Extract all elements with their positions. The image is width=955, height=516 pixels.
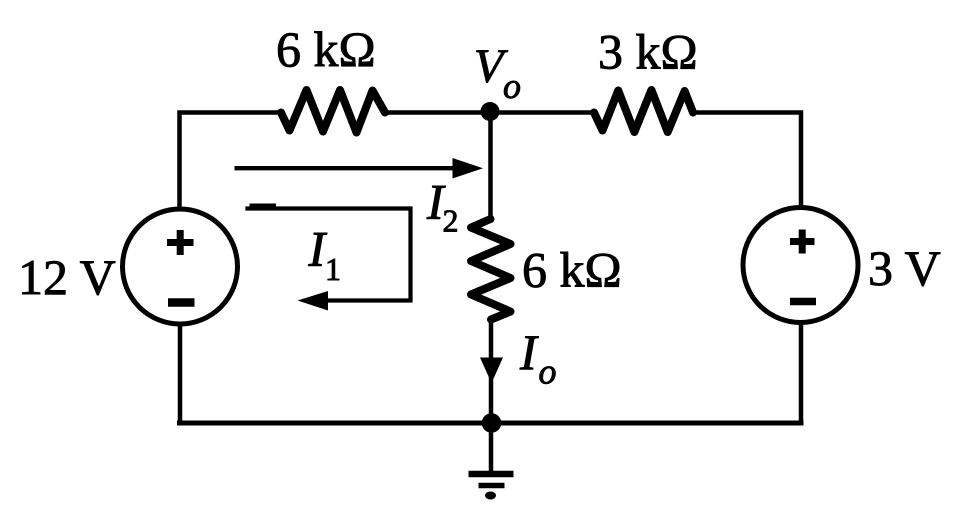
wire middle-lower: R3 bottom to bottom node (Io branch): [489, 319, 494, 423]
svg-text:3 V: 3 V: [868, 240, 941, 296]
svg-text:o: o: [503, 66, 521, 106]
ground symbol: [469, 423, 514, 486]
wire left-lower: 12V source bottom to bottom rail: [178, 324, 183, 423]
voltage source V1 minus sign: [168, 298, 195, 307]
voltage source V2 plus sign: [790, 230, 815, 254]
node Vo junction dot: [481, 102, 500, 121]
resistor R3 6 kOhm vertical zigzag: [471, 219, 511, 320]
wire bottom rail: [180, 421, 802, 426]
svg-text:12 V: 12 V: [18, 249, 116, 305]
ground bottom dot: [485, 492, 496, 500]
svg-text:I: I: [519, 324, 539, 380]
current arrow I1 (loop with left arrow): [248, 207, 411, 311]
current arrow I2 (long right arrow): [235, 158, 484, 179]
resistor R1 6 kOhm horizontal zigzag: [281, 90, 385, 133]
voltage source V2 3V circle: [743, 208, 858, 323]
voltage source V1 12V circle: [123, 209, 238, 324]
wire middle: node Vo down to resistor R3: [488, 111, 493, 219]
voltage source V2 minus sign: [790, 298, 816, 306]
voltage source V1 plus sign: [167, 230, 194, 255]
svg-text:3 kΩ: 3 kΩ: [598, 24, 698, 80]
svg-text:2: 2: [443, 203, 459, 239]
current arrow Io (down arrowhead on middle branch): [480, 358, 503, 384]
wire top-right segment: R2 to right corner, down to 3V source: [693, 113, 801, 209]
bottom junction node dot: [482, 413, 502, 433]
svg-text:6 kΩ: 6 kΩ: [276, 21, 376, 77]
resistor R2 3 kOhm horizontal zigzag: [594, 90, 693, 132]
wire top-middle: R1 to node Vo: [385, 110, 594, 115]
svg-text:1: 1: [325, 251, 341, 287]
wire right-lower: 3V source bottom to bottom rail: [799, 323, 804, 423]
svg-text:6 kΩ: 6 kΩ: [522, 242, 622, 298]
wire top-left: from 12V source top up and right to resistor R1: [180, 113, 282, 210]
svg-text:o: o: [539, 352, 557, 392]
